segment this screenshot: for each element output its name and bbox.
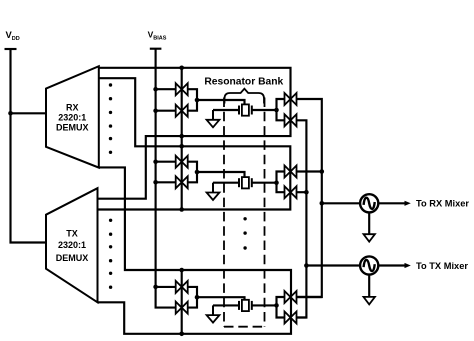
svg-text:Resonator Bank: Resonator Bank: [204, 76, 283, 87]
svg-text:TX: TX: [66, 229, 78, 239]
svg-text:RX: RX: [66, 102, 79, 112]
svg-text:2320:1: 2320:1: [58, 240, 86, 250]
svg-text:To RX Mixer: To RX Mixer: [416, 199, 469, 209]
svg-text:To TX Mixer: To TX Mixer: [416, 261, 468, 271]
svg-text:2320:1: 2320:1: [58, 113, 86, 123]
svg-text:DEMUX: DEMUX: [56, 253, 89, 263]
svg-text:DEMUX: DEMUX: [56, 123, 89, 133]
